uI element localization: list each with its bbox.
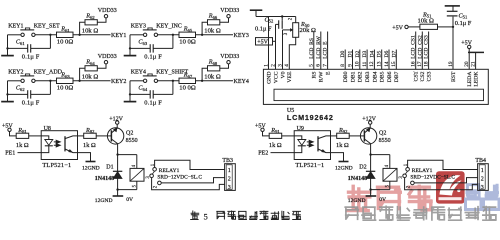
svg-text:16: 16: [411, 61, 417, 67]
resistor R82: [78, 135, 84, 137]
svg-text:1: 1: [263, 64, 269, 67]
capacitor 64: [149, 90, 151, 98]
svg-text:11: 11: [362, 61, 368, 66]
svg-text:CS1: CS1: [414, 71, 420, 81]
svg-text:DB5: DB5: [380, 71, 386, 82]
ground 12GND (U8 emitter): [78, 153, 91, 162]
wire KEY4 switch to resistor: [158, 80, 179, 82]
svg-text:20: 20: [464, 61, 470, 67]
svg-text:12GND: 12GND: [95, 198, 113, 204]
svg-text:TB3: TB3: [222, 158, 233, 164]
wire KEY4 left rail: [129, 81, 131, 95]
svg-text:LCD_CS3: LCD_CS3: [424, 35, 430, 59]
svg-text:D0: D0: [340, 50, 346, 57]
capacitor 63: [149, 44, 151, 52]
svg-text:D1: D1: [348, 50, 354, 57]
svg-text:12GND: 12GND: [335, 166, 353, 172]
wire pull-up to VDD33: [220, 18, 229, 22]
wire KEY2 left rail: [7, 81, 9, 95]
svg-text:D5: D5: [377, 50, 383, 57]
svg-text:DB2: DB2: [358, 71, 364, 82]
svg-text:1k Ω: 1k Ω: [269, 142, 282, 149]
svg-text:LCD_RW: LCD_RW: [316, 35, 322, 58]
svg-text:10 0Ω: 10 0Ω: [57, 39, 74, 46]
svg-text:U8: U8: [44, 126, 51, 132]
pin 8 DB0: [344, 50, 346, 70]
wire relay common to TB4 pin1: [408, 160, 478, 169]
pin 11 DB3: [366, 50, 368, 70]
svg-text:KEY1: KEY1: [111, 33, 126, 39]
svg-text:CS3: CS3: [427, 71, 433, 81]
diode D1 1N4148: [117, 155, 119, 172]
pin 16 CS1: [415, 32, 417, 70]
resistor R66 pull-up: [202, 22, 207, 35]
svg-text:4: 4: [284, 64, 290, 67]
svg-text:LEDK: LEDK: [474, 71, 480, 87]
svg-text:15: 15: [391, 61, 397, 67]
svg-text:KEY3: KEY3: [234, 33, 249, 39]
svg-text:DB0: DB0: [343, 71, 349, 82]
wire KEY4 output: [196, 80, 234, 82]
wire KEY3 output: [196, 34, 234, 36]
svg-text:1: 1: [481, 168, 484, 174]
IC U5 LCM192642 (LCD module): [263, 69, 488, 104]
svg-text:DB1: DB1: [350, 71, 356, 82]
wire relay NO to TB4 pin2: [414, 178, 477, 183]
svg-text:E: E: [326, 71, 332, 75]
svg-text:2: 2: [228, 177, 231, 183]
svg-text:VDD33: VDD33: [98, 8, 117, 14]
svg-text:RST: RST: [451, 71, 457, 82]
svg-text:2: 2: [270, 64, 276, 67]
wire pin2 VCC: [275, 24, 277, 69]
svg-text:SRD−12VDC−SL.C: SRD−12VDC−SL.C: [157, 175, 202, 181]
svg-text:R/W: R/W: [319, 71, 325, 82]
wire relay NC to TB3 pin3: [152, 178, 225, 190]
svg-text:1: 1: [228, 168, 231, 174]
wire KEY2 switch to resistor: [35, 80, 56, 82]
svg-text:6: 6: [316, 64, 322, 67]
svg-text:12GND: 12GND: [82, 166, 100, 172]
svg-text:KEY2: KEY2: [111, 79, 126, 85]
pin 12 DB4: [373, 50, 375, 70]
svg-text:D2: D2: [355, 50, 361, 57]
svg-text:10: 10: [355, 61, 361, 67]
junction KEY3 cap node: [172, 34, 174, 36]
wire pull-up to VDD33: [97, 18, 106, 22]
svg-text:D3: D3: [362, 50, 368, 57]
svg-text:10k Ω: 10k Ω: [418, 18, 435, 25]
switch KEY_SHIFT (KEY4 key): [143, 79, 146, 82]
svg-text:0.1μ F: 0.1μ F: [144, 53, 162, 60]
svg-text:LEDA: LEDA: [467, 71, 473, 87]
svg-text:KEY_SET: KEY_SET: [34, 23, 60, 29]
wire +5V to R81: [10, 132, 17, 136]
svg-text:KEY_ADD: KEY_ADD: [34, 69, 63, 75]
svg-text:3: 3: [277, 64, 283, 67]
svg-text:7: 7: [322, 64, 328, 67]
wire KEY1 switch to resistor: [35, 34, 56, 36]
wire KEY1 output: [73, 34, 111, 36]
svg-text:D1: D1: [106, 164, 113, 170]
svg-text:D7: D7: [391, 50, 397, 57]
svg-text:KEY1: KEY1: [8, 23, 23, 29]
svg-text:DB6: DB6: [387, 71, 393, 82]
svg-text:10k Ω: 10k Ω: [82, 28, 99, 35]
svg-text:5: 5: [309, 64, 315, 67]
svg-text:+12V: +12V: [362, 116, 376, 122]
svg-text:10 0Ω: 10 0Ω: [179, 85, 196, 92]
svg-text:0.1μ F: 0.1μ F: [22, 99, 40, 106]
wire R91 to U9: [282, 135, 295, 137]
label +5V (VCC): [256, 38, 273, 45]
svg-text:10 0Ω: 10 0Ω: [57, 85, 74, 92]
svg-text:9: 9: [347, 64, 353, 67]
power bar pin21: [475, 53, 477, 70]
diode D2 1N4148: [370, 155, 372, 172]
relay RELAY1 contacts: [406, 168, 410, 172]
svg-text:10k Ω: 10k Ω: [204, 74, 221, 81]
terminal VDD33: [227, 15, 230, 18]
svg-text:DB7: DB7: [394, 71, 400, 82]
potentiometer R50 20k: [293, 23, 299, 38]
svg-text:KEY4: KEY4: [131, 69, 146, 75]
optocoupler U8 TLP521-1: [41, 131, 77, 160]
watermark text row1 pink 易迪拓: [346, 185, 433, 212]
svg-text:0.1μ F: 0.1μ F: [455, 20, 472, 27]
svg-text:Q2: Q2: [379, 130, 386, 136]
pin 9 DB1: [352, 50, 354, 70]
svg-text:+5V: +5V: [461, 40, 472, 46]
transistor Q2 8550 (PNP): [360, 128, 376, 144]
wire +5V to R91: [263, 132, 270, 136]
svg-text:10k Ω: 10k Ω: [204, 28, 221, 35]
svg-text:+12V: +12V: [109, 116, 123, 122]
pin 13 DB5: [381, 50, 383, 70]
wire pull-up to VDD33: [220, 64, 229, 68]
wire KEY2 output: [73, 80, 111, 82]
wire coil/diode return: [118, 189, 137, 191]
pin 14 DB6: [388, 50, 390, 70]
svg-text:0.1μ F: 0.1μ F: [22, 53, 40, 60]
svg-text:2: 2: [481, 177, 484, 183]
svg-text:D4: D4: [369, 50, 375, 57]
resistor R68 pull-up: [202, 68, 207, 81]
pin 6 R/W: [320, 32, 322, 70]
svg-text:+5V: +5V: [257, 39, 268, 45]
resistor R63: [57, 78, 74, 83]
terminal VDD33: [104, 15, 107, 18]
wire relay NC to TB4 pin3: [405, 178, 478, 190]
svg-text:+5V: +5V: [392, 25, 403, 31]
wire R92 to Q2 base: [349, 135, 364, 137]
ground rail (LCD): [250, 9, 262, 11]
svg-text:1k Ω: 1k Ω: [336, 142, 349, 149]
pin 5 RS: [313, 32, 315, 70]
svg-text:19: 19: [448, 61, 454, 67]
svg-text:Q2: Q2: [126, 130, 133, 136]
svg-text:CS2: CS2: [420, 71, 426, 81]
svg-text:1k Ω: 1k Ω: [83, 142, 96, 149]
svg-text:TLP521−1: TLP521−1: [42, 162, 71, 169]
svg-text:SRD−12VDC−SL.C: SRD−12VDC−SL.C: [410, 175, 455, 181]
pin 10 DB2: [359, 50, 361, 70]
svg-text:KEY3: KEY3: [131, 23, 146, 29]
svg-text:LCD_RS: LCD_RS: [309, 38, 315, 59]
terminal +12V: [116, 124, 118, 128]
switch KEY_ADD (KEY2 key): [21, 79, 24, 82]
ground: [129, 47, 131, 49]
wire KEY3 switch to resistor: [158, 34, 179, 36]
capacitor C52: [278, 20, 280, 29]
junction KEY4 cap node: [172, 80, 174, 82]
svg-text:KEY_INC: KEY_INC: [156, 23, 182, 29]
svg-text:TLP521−1: TLP521−1: [295, 162, 324, 169]
svg-text:VDD33: VDD33: [98, 54, 117, 60]
svg-text:VEE: VEE: [287, 71, 293, 83]
wire KEY3 left rail: [129, 35, 131, 49]
watermark logo square: [436, 171, 465, 203]
svg-text:DB3: DB3: [365, 71, 371, 82]
ground: [6, 93, 8, 95]
relay RELAY1 contacts: [153, 168, 157, 172]
svg-text:17: 17: [417, 61, 423, 67]
svg-text:KEY4: KEY4: [234, 79, 249, 85]
wire Q2 collector node: [118, 144, 137, 155]
svg-text:V0: V0: [280, 71, 286, 78]
svg-text:RELAY1: RELAY1: [159, 168, 180, 174]
svg-text:5: 5: [204, 212, 208, 222]
svg-text:12GND: 12GND: [348, 198, 366, 204]
relay coil: [136, 155, 138, 169]
svg-text:10k Ω: 10k Ω: [82, 74, 99, 81]
svg-text:PE1: PE1: [5, 150, 15, 156]
svg-text:13: 13: [377, 61, 383, 67]
wire relay NO to TB3 pin2: [161, 178, 224, 183]
svg-text:LCD_E: LCD_E: [323, 41, 329, 59]
pin 15 DB7: [395, 50, 397, 70]
pin 18 CS3: [428, 32, 430, 70]
svg-text:TB4: TB4: [475, 158, 486, 164]
svg-text:1k Ω: 1k Ω: [16, 142, 29, 149]
pin 17 CS2: [421, 32, 423, 70]
watermark text row2 gray 射频和天线设计专家: [344, 206, 496, 221]
ground: [6, 47, 8, 49]
ground: [129, 93, 131, 95]
svg-text:KEY2: KEY2: [8, 69, 23, 75]
svg-text:LCD_CS1: LCD_CS1: [411, 35, 417, 59]
svg-text:8550: 8550: [379, 138, 391, 144]
wire R81 to U8: [29, 135, 42, 137]
svg-text:12: 12: [369, 61, 375, 67]
terminal +12V: [369, 124, 371, 128]
svg-text:VDD33: VDD33: [220, 54, 239, 60]
wire pin19 RST: [452, 27, 454, 69]
transistor Q2 8550 (PNP): [107, 128, 123, 144]
svg-text:U9: U9: [297, 126, 304, 132]
svg-text:VDD33: VDD33: [220, 8, 239, 14]
wire KEY1 left rail: [7, 35, 9, 49]
svg-text:RS: RS: [312, 72, 318, 79]
resistor R81: [16, 133, 29, 138]
capacitor C51: [452, 17, 454, 27]
svg-text:D2: D2: [359, 164, 366, 170]
svg-text:1N4148: 1N4148: [95, 176, 114, 182]
svg-text:RELAY1: RELAY1: [412, 168, 433, 174]
svg-text:D6: D6: [384, 50, 390, 57]
switch KEY_SET (KEY1 key): [21, 33, 24, 36]
svg-text:PE2: PE2: [258, 150, 268, 156]
svg-text:10 0Ω: 10 0Ω: [179, 39, 196, 46]
switch KEY_INC (KEY3 key): [143, 33, 146, 36]
wire relay common to TB3 pin1: [155, 160, 225, 169]
svg-text:0.1μ F: 0.1μ F: [144, 99, 162, 106]
resistor R67: [179, 78, 196, 83]
ground 12GND 0V: [117, 190, 119, 196]
junction KEY2 cap node: [49, 80, 51, 82]
resistor R92: [331, 135, 337, 137]
wire coil/diode return: [371, 189, 390, 191]
resistor R62 pull-up: [80, 22, 85, 35]
svg-text:1N4148: 1N4148: [348, 176, 367, 182]
svg-text:0V: 0V: [126, 197, 133, 203]
svg-text:8550: 8550: [126, 138, 138, 144]
svg-text:LCM192642: LCM192642: [287, 113, 334, 122]
resistor R91: [269, 133, 282, 138]
svg-text:LCD_CS2: LCD_CS2: [417, 35, 423, 59]
resistor R65: [179, 32, 196, 37]
svg-text:VCC: VCC: [273, 71, 279, 83]
wire Q2 collector node: [371, 144, 390, 155]
resistor R61: [57, 32, 74, 37]
capacitor 61: [27, 44, 29, 52]
junction KEY1 cap node: [49, 34, 51, 36]
relay coil: [389, 155, 391, 169]
svg-text:3: 3: [228, 185, 231, 191]
wire pull-up to VDD33: [97, 64, 106, 68]
ground 12GND (U9 emitter): [331, 153, 344, 162]
optocoupler U9 TLP521-1: [294, 131, 330, 160]
ground 12GND 0V: [370, 190, 372, 196]
resistor R64 pull-up: [80, 68, 85, 81]
svg-text:14: 14: [384, 61, 390, 67]
svg-text:21: 21: [470, 61, 476, 67]
svg-text:0V: 0V: [379, 197, 386, 203]
svg-text:3: 3: [481, 185, 484, 191]
terminal VDD33: [104, 61, 107, 64]
pin 7 E: [327, 32, 329, 70]
terminal VDD33: [227, 61, 230, 64]
svg-text:GND: GND: [266, 72, 272, 84]
svg-text:0.1μ F: 0.1μ F: [255, 25, 272, 32]
wire R82 to Q2 base: [96, 135, 111, 137]
capacitor 62: [27, 90, 29, 98]
svg-text:8: 8: [340, 64, 346, 67]
watermark text row1 blue 培训: [466, 184, 500, 210]
svg-text:18: 18: [423, 61, 429, 67]
caption 图5 输入输出模块原理图: [190, 211, 199, 221]
wire pin1 GND: [268, 17, 270, 70]
svg-text:DB4: DB4: [372, 71, 378, 82]
